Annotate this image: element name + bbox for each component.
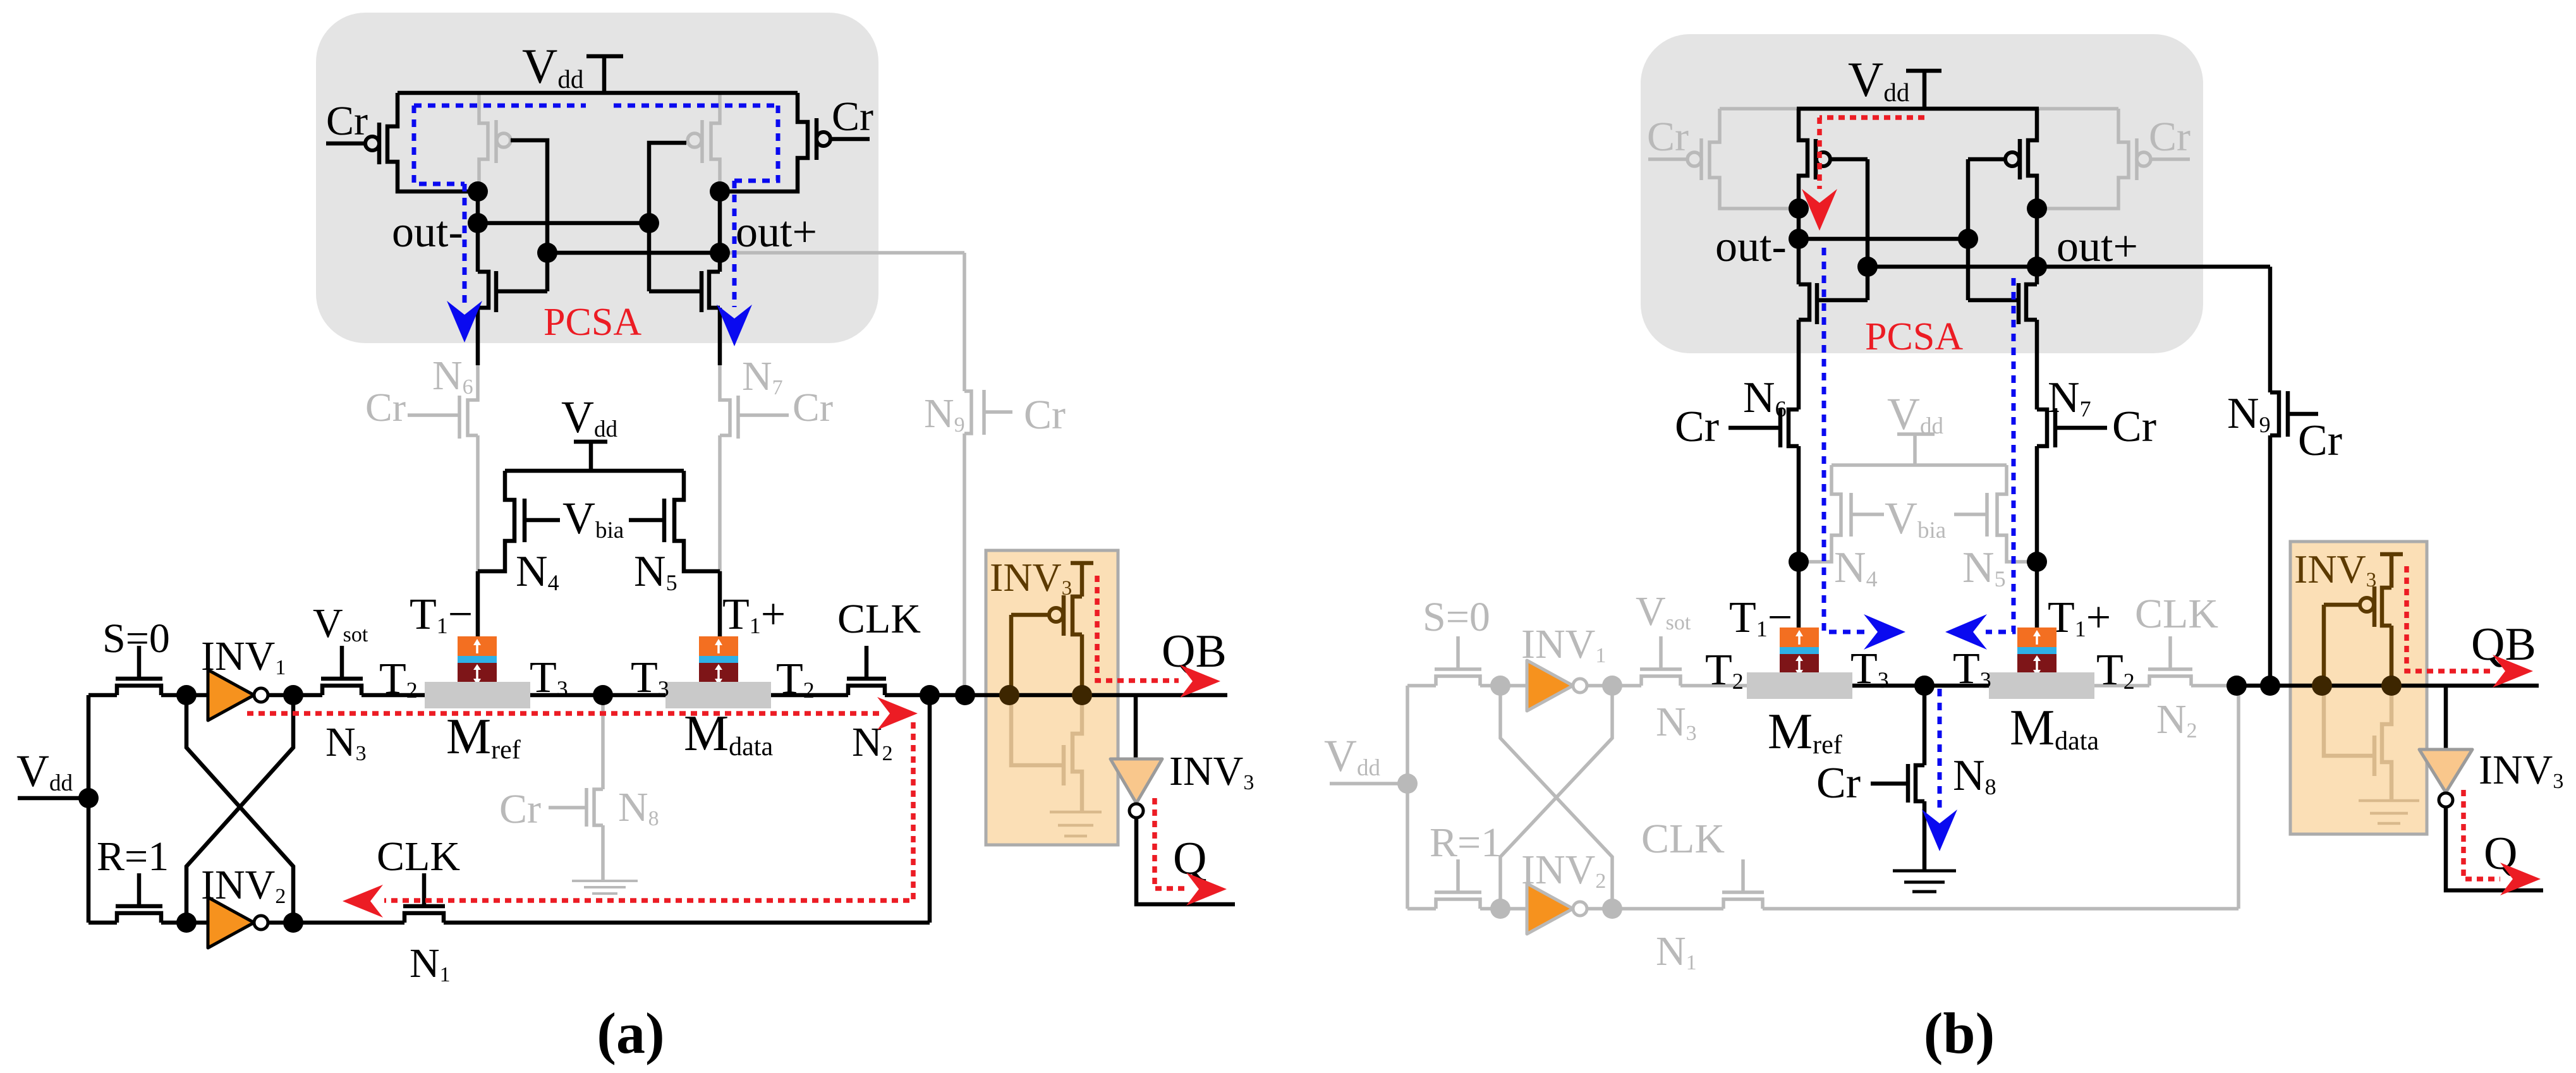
wire out+ to N9 b [2037, 265, 2270, 269]
inverter INV3 output triangle b [2444, 686, 2448, 749]
node cross left [537, 243, 557, 263]
svg-text:(b): (b) [1924, 1001, 1995, 1065]
svg-text:INV1: INV1 [1521, 621, 1606, 667]
wire Vdd rail grey right (inactive) [2039, 107, 2118, 111]
blue path precharge left [414, 106, 465, 303]
transistor N6 (inactive) with wire [468, 365, 478, 571]
pmos M2 precharge right (inactive) [711, 93, 720, 190]
wire out- to right gates [478, 221, 649, 226]
wire latch left vertical [87, 695, 91, 923]
transistor Vsot [322, 686, 361, 695]
svg-text:Cr: Cr [1647, 114, 1689, 160]
ground below N8 (inactive) [572, 880, 638, 882]
wire latch left vertical (inactive) [1406, 686, 1409, 909]
svg-text:Cr: Cr [1675, 403, 1719, 451]
PCSA block background (b) [1641, 34, 2203, 353]
node INV3 gate b [2312, 676, 2332, 696]
power Vdd symbol PCSA b [1906, 71, 1941, 109]
wire cross-couple left gate net [511, 140, 547, 291]
node T1+ branch b [2027, 552, 2047, 572]
svg-text:INV3: INV3 [990, 555, 1072, 600]
wire rail R=1 segments [88, 921, 208, 925]
wire INV2 out to CLK N1 (inactive) [1587, 907, 1723, 911]
pmos INV3 pull-up b [2380, 554, 2403, 686]
wire Vdd supply rail PCSA b [1797, 107, 2039, 111]
node out+ junctions b [2027, 198, 2047, 219]
transistor N6 b [1789, 409, 1799, 562]
wire T1+ branch [718, 571, 722, 636]
svg-text:CLK: CLK [1641, 816, 1725, 862]
wire out+ column [718, 191, 722, 272]
MTJ Mdata fixed layer [699, 663, 738, 684]
node out- junctions [468, 181, 488, 202]
node INV3 drain b [2381, 676, 2402, 696]
transistor N7 b [2037, 409, 2047, 562]
MTJ Mref b free layer [1780, 627, 1819, 647]
svg-text:Cr: Cr [2298, 416, 2342, 465]
wire Mdata to CLK [771, 693, 848, 698]
power Vdd symbol PCSA [586, 56, 623, 93]
svg-text:CLK: CLK [2135, 591, 2218, 637]
inverter INV2 (inactive outline) [1527, 883, 1573, 934]
wire current-mirror top rail [505, 469, 684, 473]
svg-text:Cr: Cr [832, 94, 873, 140]
nmos latch left PCSA b [1799, 284, 1809, 409]
pmos precharge inner-right b [2028, 109, 2037, 209]
wire Vdd rail grey left (inactive) [1720, 107, 1797, 111]
nmos N4 bias (inactive) [1799, 465, 1841, 562]
svg-text:Cr: Cr [2112, 403, 2156, 451]
blue path precharge right [734, 106, 778, 307]
pmos Cr outer-left (inactive) [1710, 109, 1799, 209]
MTJ Mdata b free layer [2017, 627, 2057, 647]
svg-text:R=1: R=1 [97, 834, 169, 880]
transistor S=0 [117, 686, 161, 695]
svg-text:out-: out- [1715, 222, 1787, 271]
node INV3 drain [1072, 685, 1092, 705]
node INV3 gate [999, 685, 1019, 705]
wire Mref to Mdata [530, 693, 665, 698]
svg-text:PCSA: PCSA [544, 301, 641, 344]
blue path right branch b [1986, 278, 2014, 632]
node Vdd latch (inactive) [1397, 773, 1418, 794]
wire INV1 out to Vsot [268, 693, 322, 698]
wire cross couple INV1-INV2 a [186, 695, 293, 923]
red path write current forward [247, 711, 882, 716]
nmos N5 bias [674, 471, 720, 571]
node N9 foot [955, 685, 975, 705]
node N2 link b [2227, 676, 2247, 696]
svg-text:INV2: INV2 [1521, 847, 1606, 893]
pmos precharge inner-left b [1799, 109, 1807, 209]
transistor S=0 (inactive) [1436, 676, 1480, 686]
MTJ Mdata free layer [699, 636, 738, 656]
svg-text:out+: out+ [736, 208, 817, 257]
node out+ junctions [710, 181, 730, 202]
box INV3 b [2290, 542, 2427, 834]
wire T1+ branch b [2035, 562, 2039, 627]
node INV1 input [176, 685, 197, 705]
svg-text:INV2: INV2 [201, 862, 286, 908]
wire rail S=0 segments [88, 693, 208, 698]
node N2 link [920, 685, 940, 705]
transistor CLK N1 (inactive) [1723, 899, 1763, 909]
wire rail S=0 segments (inactive) [1407, 684, 1527, 688]
MTJ Mref free-layer arrow [476, 642, 478, 653]
transistor N7 (inactive) with wire [720, 365, 730, 571]
node INV1 input (inactive) [1490, 676, 1510, 696]
wire cross couple b2 (inactive) [1500, 686, 1612, 909]
svg-text:Cr: Cr [365, 385, 406, 430]
nmos INV3 pull-down b (faded) [2382, 686, 2391, 801]
wire Vsot to Mref (inactive) [1680, 684, 1747, 688]
svg-text:S=0: S=0 [102, 615, 170, 662]
node cross right b [1958, 229, 1978, 249]
MTJ Mref b fixed-layer arrow [1798, 659, 1801, 672]
MTJ Mref b free-layer arrow [1798, 633, 1801, 645]
nmos N4 bias [478, 471, 514, 571]
wire Q output b [2446, 807, 2543, 890]
wire mirror top rail (inactive) [1832, 463, 2007, 467]
wire T1- branch [476, 571, 480, 636]
svg-text:Cr: Cr [793, 385, 833, 430]
wire Vsot to Mref [361, 693, 425, 698]
transistor N9 (inactive) with wire [964, 253, 971, 695]
inverter INV1 (inactive outline) [1527, 660, 1573, 711]
blue path left branch b [1824, 248, 1864, 632]
current source Vdd symbol (inactive) [1897, 434, 1935, 465]
transistor R=1 (inactive) [1436, 899, 1480, 909]
transistor R=1 [117, 913, 161, 923]
electrode bar Mref [425, 682, 530, 708]
node cross left b [1857, 257, 1878, 277]
pmos Cr outer-right (inactive) [2037, 109, 2129, 209]
inverter INV3 output triangle [1134, 695, 1138, 759]
MTJ Mdata b free-layer arrow [2036, 633, 2038, 645]
svg-text:Cr: Cr [1816, 759, 1861, 808]
node INV2 input [176, 912, 197, 933]
node INV1 output (inactive) [1602, 676, 1622, 696]
node cross right [639, 213, 659, 233]
wire cross-couple left gate net b [1866, 159, 1870, 300]
node T3 junction [593, 685, 613, 705]
MTJ Mdata b fixed-layer arrow [2036, 659, 2038, 672]
MTJ Mdata b fixed layer [2017, 654, 2057, 676]
MTJ Mdata b barrier layer [2017, 647, 2057, 654]
electrode bar Mdata b [1989, 672, 2094, 699]
nmos latch right PCSA [709, 272, 720, 365]
node INV2 output (inactive) [1602, 899, 1622, 919]
wire T1- branch b [1797, 562, 1801, 627]
wire cross couple INV1-INV2 b [186, 695, 293, 923]
transistor Vsot (inactive) [1641, 676, 1680, 686]
node INV2 input (inactive) [1490, 899, 1510, 919]
svg-text:Cr: Cr [1024, 392, 1066, 438]
red path QB inside INV3 [1097, 576, 1179, 681]
MTJ Mref b barrier layer [1780, 647, 1819, 654]
MTJ Mref b fixed layer [1780, 654, 1819, 676]
PCSA block background (a) [316, 13, 878, 343]
svg-text:S=0: S=0 [1423, 594, 1490, 640]
pmos Cr precharge outer-left [387, 93, 478, 191]
svg-text:PCSA: PCSA [1865, 315, 1963, 358]
wire out+ to N9 (inactive) [727, 251, 964, 255]
node T3 junction b [1914, 676, 1935, 696]
svg-text:R=1: R=1 [1430, 820, 1502, 866]
wire out- column [476, 191, 480, 272]
transistor N9 b [2270, 267, 2279, 686]
red path Q output [1155, 798, 1185, 888]
wire N2 to QB rail b [2237, 684, 2539, 688]
red path write current return [384, 722, 913, 900]
wire N1 to N2 bottom rail [444, 921, 930, 925]
node INV1 output [283, 685, 303, 705]
node N9 foot b [2260, 676, 2280, 696]
wire cross couple b1 (inactive) [1500, 686, 1612, 909]
pmos INV3 pull-up [1071, 563, 1093, 695]
MTJ Mdata free-layer arrow [717, 642, 720, 653]
wire N8 column b [1923, 686, 1927, 765]
wire Vdd supply rail PCSA [398, 91, 798, 95]
node INV2 output [283, 912, 303, 933]
MTJ Mdata fixed-layer arrow [717, 668, 720, 681]
svg-text:INV3: INV3 [1169, 748, 1254, 794]
svg-text:out-: out- [392, 208, 463, 257]
svg-text:Cr: Cr [499, 786, 541, 832]
red path QB inside INV3 b [2407, 566, 2493, 671]
svg-text:INV3: INV3 [2294, 547, 2376, 591]
svg-text:CLK: CLK [377, 834, 460, 880]
blue path precharge top [414, 104, 778, 108]
wire INV2 out to CLK N1 [268, 921, 404, 925]
node Vdd latch [78, 788, 99, 808]
MTJ Mref fixed-layer arrow [476, 668, 478, 681]
red path precharge b [1820, 118, 1924, 189]
transistor CLK read [848, 686, 885, 695]
MTJ Mdata barrier layer [699, 656, 738, 663]
inverter INV2 [208, 897, 254, 948]
svg-text:CLK: CLK [837, 596, 921, 642]
transistor CLK N1 [404, 913, 444, 923]
wire Q output [1136, 818, 1235, 904]
ground below N8 b [1893, 870, 1956, 873]
wire out+ to left gates [547, 251, 720, 255]
MTJ Mref barrier layer [458, 656, 497, 663]
nmos N5 bias (inactive) [1997, 465, 2037, 562]
wire cross-couple right gate net [649, 143, 686, 291]
svg-text:out+: out+ [2057, 222, 2138, 271]
svg-text:QB: QB [1162, 626, 1227, 677]
wire out+ column b [2035, 209, 2039, 284]
electrode bar Mdata [665, 682, 771, 708]
wire Vdd latch stub [18, 796, 88, 801]
ground INV3 (faded) [1050, 811, 1102, 814]
transistor N8 b [1916, 765, 1924, 871]
MTJ Mref free layer [458, 636, 497, 656]
wire out- column b [1797, 209, 1801, 284]
svg-text:Cr: Cr [2149, 114, 2190, 160]
nmos INV3 pull-down (faded) [1072, 695, 1082, 811]
transistor N8 (inactive) with wire [594, 695, 603, 881]
ground INV3 b (faded) [2359, 799, 2419, 803]
blue path N8 b [1938, 689, 1942, 812]
transistor N2 CLK (inactive) [2149, 676, 2191, 686]
wire rail R=1 segments (inactive) [1407, 907, 1527, 911]
wire Mref to Mdata b [1852, 684, 1989, 688]
svg-text:(a): (a) [597, 1001, 664, 1065]
wire N2 link down [928, 695, 932, 923]
wire out+ to left gates b [1868, 265, 2037, 269]
nmos latch left PCSA [478, 272, 489, 365]
node T1- branch b [1789, 552, 1809, 572]
wire INV1 out to Vsot (inactive) [1587, 684, 1641, 688]
MTJ Mref fixed layer [458, 663, 497, 684]
wire Vdd latch stub (inactive) [1330, 782, 1407, 785]
wire cross-couple right gate net b [1966, 159, 1971, 300]
box INV3 [986, 550, 1118, 845]
wire out- to right gates b [1799, 237, 1968, 241]
svg-text:Cr: Cr [326, 98, 368, 144]
inverter INV1 [208, 670, 254, 720]
red path Q output b [2464, 790, 2500, 879]
pmos Cr precharge outer-right [720, 93, 808, 191]
node out- junctions b [1789, 198, 1809, 219]
nmos latch right PCSA b [2026, 284, 2037, 409]
current source Vdd symbol [574, 442, 607, 471]
svg-text:INV1: INV1 [201, 633, 286, 679]
electrode bar Mref b [1747, 672, 1852, 699]
svg-text:INV3: INV3 [2479, 747, 2563, 793]
wire CLK to INV3 [885, 693, 1227, 698]
wire rail Mdata to N2 (inactive) [2094, 684, 2149, 688]
wire N2 to INV3 (inactive) [2191, 684, 2237, 688]
pmos M1 precharge left (inactive) [479, 93, 488, 190]
wire bottom rail to N2 (inactive) [1763, 686, 2239, 909]
